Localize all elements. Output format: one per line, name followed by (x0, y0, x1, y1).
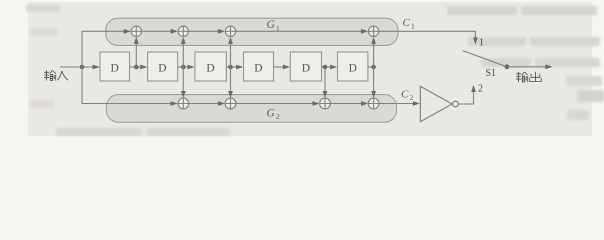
wire C1 output to switch contact 1 (379, 31, 476, 40)
svg-text:2: 2 (410, 93, 414, 102)
XOR gate top 4 (368, 26, 378, 36)
svg-text:G: G (267, 19, 276, 31)
wire inverter to switch contact 2 (458, 89, 473, 104)
XOR gate bottom 3 (320, 98, 331, 109)
svg-text:2: 2 (478, 84, 483, 95)
XOR gate top 3 (225, 26, 235, 36)
wire XOR2-XOR3 bottom (236, 103, 315, 105)
wire tap6 down (373, 67, 375, 94)
wire XOR3-XOR4 top (236, 30, 364, 32)
switch S1 wiper (463, 51, 508, 67)
svg-text:1: 1 (479, 37, 484, 48)
XOR gate top 2 (178, 26, 188, 36)
wire tap2 up (182, 41, 184, 67)
flip-flop D4 (244, 52, 274, 81)
svg-text:D: D (206, 62, 214, 74)
wire XOR1-XOR2 top (142, 30, 174, 32)
node tap1 (134, 65, 139, 70)
wire XOR1-XOR2 bottom (189, 103, 221, 105)
flip-flop D1 (100, 52, 130, 81)
flip-flop D6 (338, 52, 368, 81)
svg-text:2: 2 (276, 112, 280, 121)
XOR gate bottom 1 (178, 98, 189, 109)
XOR gate bottom 4 (368, 98, 379, 109)
svg-text:D: D (158, 62, 166, 74)
node tap2 (181, 65, 186, 70)
wire input to G1 adder (82, 31, 126, 67)
inverter U1 (420, 86, 458, 121)
wire tap1 up (135, 41, 137, 67)
svg-text:D: D (349, 62, 357, 74)
decorative scanned-page background (unlabelled) (0, 0, 604, 142)
wire output (507, 66, 548, 68)
svg-text:D: D (302, 62, 310, 74)
svg-text:1: 1 (411, 22, 415, 31)
wire D1-D2 (130, 66, 145, 68)
svg-text:D: D (254, 62, 262, 74)
node tap5 (323, 65, 328, 70)
wire input to G2 adder (82, 67, 173, 104)
wire input (60, 66, 97, 68)
svg-text:C: C (401, 89, 409, 101)
node input junction (80, 65, 85, 70)
svg-text:C: C (403, 17, 411, 29)
wire tap3 up (230, 41, 232, 67)
XOR gate top 1 (131, 26, 141, 36)
node tap3 (228, 65, 233, 70)
wire D2-D3 (178, 66, 192, 68)
wire D6 out (368, 66, 374, 68)
label 输出 (output) (516, 72, 541, 82)
flip-flop D2 (148, 52, 178, 81)
svg-text:S1: S1 (486, 68, 497, 79)
svg-text:D: D (111, 62, 119, 74)
wire XOR3-XOR4 bottom (330, 103, 364, 105)
node tap6 (371, 65, 376, 70)
node switch pivot (505, 64, 510, 69)
label 输入 (input) (44, 71, 68, 81)
svg-text:G: G (267, 108, 276, 120)
wire tap3 down (230, 67, 232, 94)
XOR gate bottom 2 (225, 98, 236, 109)
wire tap6 up (373, 41, 375, 67)
bus G2 (106, 95, 396, 123)
wire C2 output to inverter (379, 103, 416, 105)
wire tap5 down (324, 67, 326, 94)
wire tap2 down (182, 67, 184, 94)
flip-flop D5 (290, 52, 321, 81)
bus G1 (106, 18, 398, 45)
wire XOR2-XOR3 top (189, 30, 221, 32)
flip-flop D3 (195, 52, 227, 81)
wire D3-D4 (226, 66, 240, 68)
wire D5-D6 (322, 66, 335, 68)
wire D4-D5 (274, 66, 288, 68)
